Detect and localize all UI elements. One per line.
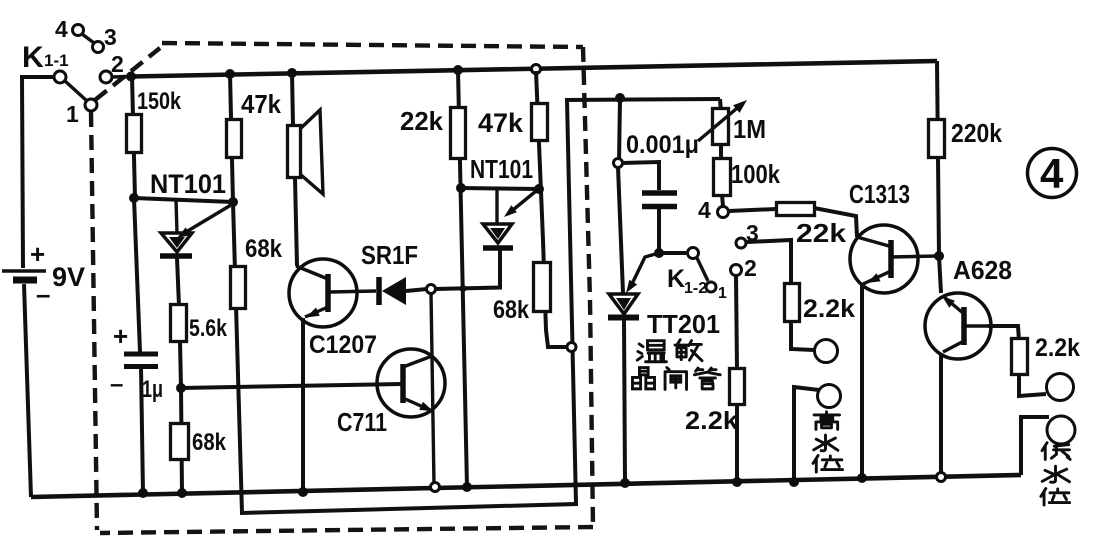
NT101 right: triangle [483, 224, 512, 243]
node: 47k top on rail [225, 69, 235, 79]
node: C1313 collector / 220k / A628 [934, 251, 944, 261]
wire: 2.2k lower to bottom rail [735, 404, 739, 482]
NT101 right: cathode bar [483, 245, 513, 251]
C1313 base lead [857, 237, 889, 246]
NT101 left: cathode bar [160, 253, 192, 259]
neon trigger NT101 (left): anode stem [176, 200, 177, 233]
transistor C1207 body [289, 259, 357, 327]
switch K1-1 contact 3 [93, 42, 104, 53]
wire: 100k to contact 4 [722, 195, 723, 206]
probe electrode (low level, lower) [1047, 416, 1075, 444]
svg-text:K: K [667, 265, 685, 293]
svg-text:150k: 150k [137, 88, 182, 115]
label low water level: di [1042, 443, 1070, 460]
thyristor TT201 triangle [609, 294, 638, 314]
potentiometer 1M body [713, 109, 729, 145]
wire: top supply rail [131, 61, 937, 77]
speaker BL driver box [288, 126, 301, 178]
svg-text:0.001μ: 0.001μ [626, 131, 699, 159]
1M adjustment arrow [698, 104, 742, 141]
diode SR1F cathode bar [376, 277, 382, 305]
wire: top rail corner down through 220k [937, 61, 939, 256]
wire: 150k branch from rail to node A [132, 76, 135, 198]
wire: C1207 emitter to bottom rail [301, 318, 305, 492]
node: 1u / bottom rail [138, 488, 148, 498]
svg-text:5.6k: 5.6k [189, 315, 228, 342]
wire: link contact 4 to contact 3 [82, 34, 94, 43]
svg-text:1-1: 1-1 [44, 51, 69, 70]
NT101 left: gate diagonal with arrow from node B [186, 205, 231, 232]
svg-text:K: K [22, 41, 44, 74]
capacitor 0.001u plates [642, 190, 677, 196]
resistor 47k (first) [227, 120, 242, 158]
dashed enclosure: right edge [583, 47, 593, 527]
svg-text:+: + [113, 321, 128, 351]
wire: A628 emitter to bottom rail [939, 354, 943, 472]
wire: A628 collector to 2.2k (right) [988, 326, 1019, 341]
switch K1-2 contact 3 [736, 238, 746, 248]
wire: 2.2k down to low-level probe 1 [1019, 375, 1046, 396]
resistor 22k (horizontal) [777, 203, 815, 216]
NT101 left: triangle [161, 233, 192, 252]
wire: 22k line from top rail to bottom rail [458, 70, 467, 487]
resistor 150k [127, 115, 142, 153]
wire: TT201 cathode to bottom rail [624, 320, 625, 483]
svg-text:C1207: C1207 [309, 331, 377, 359]
node: 22k top on rail [453, 65, 463, 75]
A628 collector lead [966, 324, 990, 327]
node: 47k (second) top ring on rail [532, 65, 541, 74]
wire: 47k second branch down [536, 71, 568, 347]
wire: 22k to C1313 base [814, 208, 857, 237]
transistor C1313 body [850, 225, 918, 293]
dashed enclosure: bottom edge [100, 527, 593, 533]
node: 68k / bottom rail [177, 488, 187, 498]
svg-text:1M: 1M [733, 114, 766, 144]
wire: battery minus to bottom rail [24, 284, 31, 497]
svg-text:1-2: 1-2 [684, 280, 707, 297]
transistor A628 body [925, 293, 991, 359]
wire: bottom rail corner up to low-level probe 2 [1021, 417, 1049, 475]
resistor 100k [714, 159, 731, 196]
svg-text:22k: 22k [796, 218, 847, 248]
wire: speaker to C1207 collector [295, 178, 297, 266]
svg-text:A628: A628 [953, 255, 1012, 285]
label TT201 chinese: min (sensitive) [675, 340, 702, 361]
svg-text:–: – [110, 371, 123, 398]
resistor 68k (middle) [231, 267, 246, 309]
svg-text:1: 1 [66, 101, 79, 127]
resistor 2.2k (upper) [785, 284, 800, 322]
label high water level: gao [814, 412, 839, 430]
neon trigger NT101 (right): anode stem [495, 189, 498, 224]
dashed enclosure: top edge [162, 43, 583, 47]
node: top rail / switch junction [126, 72, 136, 82]
switch K1-2 contact 2 [731, 265, 742, 276]
label TT201 chinese: guan (tube) [694, 368, 720, 389]
svg-text:TT201: TT201 [647, 309, 720, 339]
NT101 right: gate diagonal with arrow [508, 191, 536, 214]
C711 collector lead [403, 356, 432, 367]
svg-text:NT101: NT101 [150, 169, 226, 199]
svg-text:–: – [36, 279, 50, 309]
C1207 base bar [325, 274, 331, 312]
svg-text:NT101: NT101 [470, 154, 533, 184]
wire: left rail from switch down to battery [22, 77, 54, 268]
wire: node D to NT101 (right) cathode corner [435, 250, 500, 289]
wire: rail to speaker [292, 73, 293, 126]
node A: 150k / NT101 anode wire [129, 193, 139, 203]
switch K1-2 contact 1 [706, 282, 716, 292]
dashed enclosure: oscillator module boundary, left edge [91, 112, 97, 530]
svg-text:+: + [30, 239, 45, 269]
svg-text:C711: C711 [337, 407, 387, 437]
C1313 emitter lead with arrow [863, 271, 891, 284]
probe electrode (high level, upper) [815, 340, 838, 363]
node: TT201 / bottom rail [620, 478, 630, 488]
resistor 5.6k [171, 305, 187, 342]
wire: NT101 right anode wire [461, 188, 539, 189]
label low water level: shui [1042, 466, 1069, 482]
wire: node E jog to 0.001u capacitor [622, 162, 659, 190]
svg-text:47k: 47k [241, 89, 281, 119]
svg-text:SR1F: SR1F [361, 240, 418, 270]
node: C1313 emitter / bottom rail [857, 473, 867, 483]
svg-text:C1313: C1313 [849, 179, 910, 209]
switch K1-2 common contact [688, 248, 699, 259]
label high water level: wei [813, 456, 843, 472]
svg-text:220k: 220k [951, 118, 1002, 148]
switch K1-2 contact 4 [718, 207, 729, 218]
svg-text:68k: 68k [493, 296, 529, 324]
svg-text:2.2k: 2.2k [685, 407, 738, 435]
wire: C1313 emitter to bottom rail [860, 285, 864, 478]
C1207 base lead to SR1F [330, 291, 376, 292]
A628 base bar [961, 307, 967, 345]
capacitor C 1u electrolytic plates [124, 352, 158, 357]
switch K1-1 arm to contact 1 [65, 81, 87, 101]
wire: K1-2 contact 3 to 2.2k (upper) [747, 240, 791, 284]
svg-text:9V: 9V [52, 262, 85, 292]
svg-text:3: 3 [104, 24, 117, 50]
C1207 emitter lead with arrow [305, 307, 328, 317]
node C: 5.6k / 68k / C711 base [176, 383, 186, 393]
wire: 1M to 100k [719, 144, 723, 161]
probe electrode (high level, lower) [818, 385, 841, 408]
wire: contact 2 to top rail node [112, 75, 128, 79]
switch K1-1 contact 2 [100, 71, 112, 83]
resistor 2.2k (lower) [730, 369, 745, 405]
resistor 22k (first) [451, 108, 466, 159]
wire: node D down through C711 to collector [431, 293, 434, 485]
speaker horn [301, 110, 323, 194]
node: A628 emitter / bottom rail (ring) [937, 473, 946, 482]
label TT201 chinese: jing (crystal) [632, 368, 654, 389]
label TT201 chinese: wen (temperature) [637, 341, 666, 362]
wire: contact 4 to 22k [729, 209, 776, 211]
wire: node down to A628 [939, 256, 941, 293]
wire: node F to K1-2 common [663, 251, 686, 255]
A628 upper lead with arrow (to 220k node) [944, 297, 963, 313]
battery B 9V plates [2, 269, 46, 272]
svg-text:68k: 68k [192, 429, 227, 456]
node: ring junction on inner-loop vertical [567, 343, 576, 352]
wire: 47k branch from rail to node B [230, 74, 233, 202]
node D: SR1F / C711 collector junction ring [427, 285, 436, 294]
svg-text:1: 1 [718, 285, 727, 302]
label low water level: wei [1041, 489, 1070, 505]
node: 22k line / bottom rail [462, 482, 472, 492]
svg-text:4: 4 [1040, 150, 1064, 197]
wire: node E down to TT201 anode [618, 167, 623, 293]
node: C711 emitter at bottom rail (ring) [431, 483, 440, 492]
figure number circled 4 [1028, 149, 1077, 198]
A628 emitter lead [943, 341, 964, 352]
wire: second rail corner into 1M [720, 99, 721, 112]
wire: K1-2 contact 2 down to 2.2k (lower) [736, 276, 737, 370]
switch K1-1 contact 4 [73, 25, 84, 36]
node: 22k / NT101 right anode wire [456, 183, 466, 193]
svg-text:100k: 100k [731, 159, 780, 189]
wire: NT101 cathode to 5.6k [177, 258, 179, 306]
transistor C711 body [377, 349, 445, 417]
svg-text:1μ: 1μ [142, 376, 163, 403]
wire: node A down to 1u capacitor [134, 198, 140, 352]
node: second rail / TT201 column [615, 93, 625, 103]
node F: capacitor / gate / K1-2 wire [654, 248, 664, 258]
wire: 2.2k down to high-level probe 1 [791, 321, 814, 350]
svg-text:47k: 47k [478, 108, 524, 138]
node: NT101 right / 47k line [534, 184, 544, 194]
svg-text:22k: 22k [400, 106, 444, 136]
svg-text:4: 4 [55, 16, 68, 42]
probe electrode (low level, upper) [1047, 374, 1074, 401]
svg-text:2: 2 [111, 51, 124, 77]
wire: 68k mid branch + inner box loop + second rail [233, 99, 720, 513]
thyristor TT201 gate lead with arrow [631, 253, 659, 286]
C711 base bar [400, 364, 406, 403]
label TT201 chinese: zha (gate) [665, 368, 686, 390]
resistor 68k (left lower) [181, 388, 182, 493]
svg-text:4: 4 [698, 197, 711, 223]
wire: node A to node B (NT101 anode wire) [134, 198, 233, 202]
wire: 0.001u bottom plate to node F [657, 209, 661, 253]
switch K1-1 contact 1 [85, 99, 97, 111]
wire: SR1F anode to node D [406, 289, 427, 291]
C1313 base bar [888, 240, 894, 278]
node: 2.2k lower / bottom rail [732, 477, 742, 487]
resistor 68k (right) [534, 263, 551, 312]
svg-text:2.2k: 2.2k [803, 295, 855, 323]
node E: 0.001u / TT201 anode ring [614, 159, 623, 168]
resistor 2.2k (right) [1012, 339, 1028, 375]
svg-text:2: 2 [744, 255, 757, 281]
wire: second rail down to ring node E [619, 98, 620, 163]
wire: 1u capacitor to bottom rail [141, 367, 143, 493]
node: probe return / bottom rail [789, 477, 799, 487]
svg-text:2.2k: 2.2k [1035, 334, 1080, 362]
wire: 5.6k to node C [180, 341, 181, 388]
node: C1207 emitter / bottom rail [298, 487, 308, 497]
C1313 collector lead [891, 256, 937, 257]
C1207 collector lead [296, 266, 328, 279]
wire: high-level probe 2 to bottom rail [794, 387, 819, 482]
node: speaker top on rail [287, 68, 297, 78]
resistor 47k (second) [532, 104, 548, 141]
dashed enclosure: diagonal from contact 2 of K1-1 [95, 48, 160, 100]
diode SR1F triangle (pointing left) [382, 277, 406, 305]
TT201 cathode bar [608, 315, 639, 321]
wire: bottom ground rail [31, 475, 1021, 497]
svg-text:68k: 68k [245, 235, 282, 263]
wire: C711 base wire from node C [181, 384, 402, 388]
label high water level: shui [814, 435, 838, 451]
switch K1-1 common contact [54, 71, 66, 83]
node: crossing junction 22k line [459, 285, 466, 292]
node B: 47k / NT101 [228, 197, 238, 207]
switch K1-2 arm to contact 1 [697, 258, 708, 281]
resistor 220k [929, 120, 945, 158]
C711 emitter lead with arrow [403, 398, 430, 410]
